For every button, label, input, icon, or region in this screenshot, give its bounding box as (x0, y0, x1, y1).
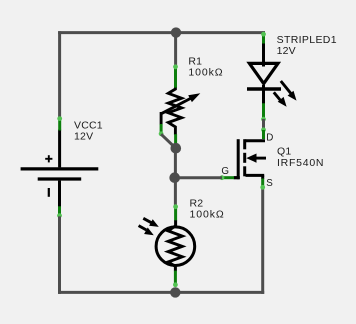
Q1 source wire end dot (260, 185, 265, 190)
wire: LED cathode to MOSFET drain (262, 119, 265, 130)
svg-text:100kΩ: 100kΩ (188, 67, 223, 79)
Q1 gate wire end dot (220, 175, 225, 180)
photoresistor R2 pin top (green leg) (174, 205, 177, 221)
wire: left rail upper (top rail to battery +) (58, 31, 61, 118)
R2 pin bottom (green leg) (174, 271, 177, 285)
LED pin cathode (green leg) (262, 103, 265, 118)
LED STRIPLED1 pin anode (green leg) (262, 33, 265, 44)
wire: bottom rail GND net (58, 291, 264, 294)
battery VCC1 (21, 130, 99, 207)
wire: LED top stub (262, 31, 265, 34)
R1 wiper pin (green leg) (160, 124, 163, 134)
wire: between mid junctions (174, 147, 177, 178)
resistor R1 pin top (green leg) (174, 66, 177, 88)
battery VCC1 pin - (green leg) (58, 206, 61, 216)
MOSFET drain wire end dot (261, 127, 266, 132)
battery VCC1 pin + wire end dot (57, 116, 62, 121)
R1 top wire end dot (173, 64, 178, 69)
wire: right rail lower (MOSFET source to bottom rail) (261, 188, 264, 294)
svg-text:12V: 12V (277, 45, 296, 57)
wire: gate junction down to R2 (174, 178, 177, 207)
Q1 gate pin (green leg) (222, 176, 235, 179)
svg-text:D: D (266, 132, 273, 143)
wire: R1 wiper to mid junction (161, 134, 176, 148)
R2 top wire end dot (173, 204, 178, 209)
R1 wiper wire end dot (159, 131, 164, 136)
LED emission arrow 1 (281, 81, 297, 101)
Q1 source pin (green leg) (261, 179, 264, 188)
R2 bottom wire end dot (173, 282, 178, 287)
wire: gate junction to Q1 gate (175, 176, 222, 179)
LED emission arrow 2 (274, 92, 287, 106)
wire: top rail VCC net (58, 31, 265, 34)
transistor Q1 IRF540N body (234, 139, 267, 179)
node: bottom junction dot (170, 287, 180, 297)
LED top wire end dot (261, 32, 266, 37)
node: mid junction dot (R1 bottom / wiper) (171, 143, 182, 154)
node: top junction dot (171, 27, 181, 37)
svg-text:G: G (221, 166, 229, 177)
MOSFET Q1 drain pin (green leg) (262, 130, 265, 139)
battery VCC1 pin - wire end dot (57, 213, 62, 218)
R1 pin bottom (green leg) (174, 134, 177, 144)
svg-text:100kΩ: 100kΩ (190, 209, 225, 221)
svg-text:12V: 12V (74, 131, 93, 143)
Q1 body arrow head (246, 154, 256, 163)
svg-text:R1: R1 (188, 55, 202, 67)
node: gate junction dot (169, 172, 180, 183)
resistor R1 (rheostat) body (161, 88, 193, 135)
LED cathode wire end dot (261, 117, 266, 122)
battery VCC1 pin + (green leg) (58, 118, 61, 131)
R2 light arrow 1 (143, 218, 159, 227)
R1 wiper arrow head (188, 93, 200, 102)
wire: left rail lower (battery - to bottom rail) (58, 216, 61, 294)
svg-text:IRF540N: IRF540N (277, 157, 324, 169)
R2 light arrow 2 (139, 226, 154, 236)
photoresistor R2 (LDR) body (156, 220, 195, 271)
LED STRIPLED1 body (247, 44, 281, 104)
wire: middle branch top (junction to R1) (174, 33, 177, 67)
svg-text:S: S (266, 178, 273, 189)
